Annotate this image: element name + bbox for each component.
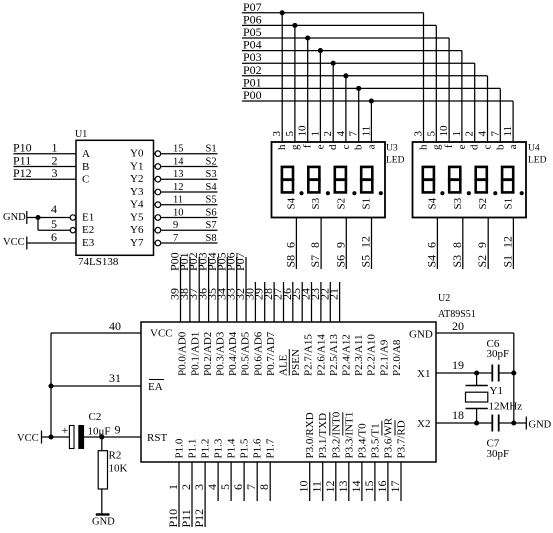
svg-text:Y1: Y1 [130, 161, 143, 173]
svg-text:S4: S4 [424, 255, 438, 268]
svg-text:9: 9 [115, 423, 121, 437]
wire U2 top pin 22 [329, 282, 331, 322]
svg-text:U3: U3 [386, 143, 398, 153]
svg-text:P0.5/AD5: P0.5/AD5 [240, 331, 252, 376]
ground symbol (R2) [96, 513, 110, 515]
svg-text:X1: X1 [417, 368, 430, 380]
wire P04 to U3 pin [319, 51, 321, 142]
wire U3 common S2 [345, 218, 347, 270]
svg-text:15: 15 [362, 481, 376, 493]
svg-text:8: 8 [257, 484, 271, 490]
U1 bubble Y4 [155, 202, 161, 208]
wire P03 to U3 pin [332, 63, 334, 142]
svg-text:E1: E1 [82, 212, 94, 224]
svg-text:1: 1 [166, 484, 180, 490]
svg-text:GND: GND [3, 212, 26, 223]
svg-text:P3.2/INT0: P3.2/INT0 [330, 411, 342, 458]
junction rail/EA [48, 383, 53, 388]
svg-text:1: 1 [451, 131, 463, 137]
svg-text:19: 19 [452, 358, 464, 372]
svg-text:S1: S1 [500, 255, 514, 268]
svg-text:E2: E2 [82, 224, 94, 236]
wire U4 common S3 [462, 218, 464, 270]
U3 digit 3 (8.) [335, 167, 346, 180]
svg-text:S1: S1 [361, 198, 373, 210]
svg-text:13: 13 [173, 169, 184, 180]
svg-text:P07: P07 [233, 252, 247, 271]
wire Y0 to S1 [154, 153, 156, 155]
svg-text:LED: LED [528, 155, 547, 165]
wire U2 top pin 21 [339, 282, 341, 322]
svg-text:12: 12 [323, 481, 337, 493]
wire U4 common S1 [512, 218, 514, 270]
svg-text:8: 8 [308, 242, 322, 248]
svg-text:7: 7 [489, 131, 501, 137]
svg-text:17: 17 [388, 481, 402, 493]
wire P04 to U2 [217, 257, 219, 322]
wire P05 to U2 [226, 257, 228, 322]
svg-text:f: f [443, 144, 455, 148]
svg-text:4: 4 [477, 131, 489, 137]
svg-text:4: 4 [335, 131, 347, 137]
junction X2/Y1 [474, 420, 479, 425]
svg-text:P0.0/AD0: P0.0/AD0 [177, 331, 189, 376]
junction X1/Y1 [474, 370, 479, 375]
wire P05 to U3 pin [307, 38, 309, 142]
svg-text:P2.0/A8: P2.0/A8 [391, 339, 403, 376]
wire P02 to U4 pin [487, 76, 489, 142]
svg-text:h: h [276, 144, 288, 150]
wire U2 top pin 27 [283, 282, 285, 322]
svg-text:30pF: 30pF [487, 348, 510, 360]
svg-text:c: c [482, 144, 494, 149]
svg-text:GND: GND [409, 329, 433, 341]
svg-text:P11: P11 [179, 509, 193, 527]
svg-text:d: d [469, 144, 481, 150]
svg-text:P12: P12 [13, 166, 32, 180]
wire P06 horizontal [242, 24, 436, 26]
svg-text:6: 6 [231, 484, 245, 490]
wire P00 to U2 [180, 257, 182, 322]
svg-text:VCC: VCC [150, 328, 173, 340]
svg-text:12MHz: 12MHz [489, 401, 523, 413]
U1 bubble E2 [70, 228, 75, 233]
svg-text:P0.6/AD6: P0.6/AD6 [252, 331, 264, 376]
svg-text:S3: S3 [310, 197, 322, 209]
svg-text:RST: RST [147, 432, 167, 444]
svg-text:S5: S5 [359, 255, 373, 268]
svg-text:LED: LED [386, 155, 405, 165]
svg-text:1: 1 [309, 131, 321, 137]
svg-text:10K: 10K [109, 463, 128, 475]
svg-text:EA: EA [148, 381, 163, 393]
wire U4 common S2 [487, 218, 489, 270]
junction rail/RST net [48, 434, 53, 439]
wire U2 bottom pin 3 [204, 462, 206, 527]
svg-text:3: 3 [413, 131, 425, 137]
svg-text:P1.4: P1.4 [226, 438, 238, 458]
U4 digit 2 (8.) [449, 167, 460, 180]
svg-text:10: 10 [173, 208, 184, 219]
svg-text:40: 40 [109, 319, 121, 333]
wire P07 to U2 [245, 257, 247, 322]
svg-text:GND: GND [529, 420, 552, 431]
wire P04 horizontal [242, 50, 462, 52]
U4 digit 4 (8.) [502, 167, 513, 180]
wire P01 horizontal [242, 87, 500, 89]
svg-text:5: 5 [218, 484, 232, 490]
svg-text:P1.0: P1.0 [174, 438, 186, 458]
svg-text:f: f [302, 144, 314, 148]
wire U2 bottom pin 10 [309, 462, 311, 501]
svg-text:30pF: 30pF [487, 448, 510, 460]
wire GND to E1 [27, 217, 71, 219]
LED display U4 [413, 142, 527, 218]
svg-text:11: 11 [310, 481, 324, 493]
wire P01 to U2 [189, 257, 191, 322]
svg-text:7: 7 [348, 131, 360, 137]
U1 bubble Y0 [155, 151, 161, 157]
svg-text:P12: P12 [192, 509, 206, 528]
junction RST/R2 [99, 434, 104, 439]
junction GND/E2 [35, 215, 40, 220]
svg-text:A: A [82, 148, 90, 160]
svg-text:P3.5/T1: P3.5/T1 [369, 423, 381, 458]
svg-text:ALE: ALE [278, 354, 290, 376]
svg-text:S1: S1 [502, 198, 514, 210]
svg-text:P2.2/A10: P2.2/A10 [366, 334, 378, 376]
wire R2 top [101, 437, 103, 451]
wire P10 to U1 [14, 153, 77, 155]
svg-text:4: 4 [51, 202, 57, 216]
wire U2 bottom pin 11 [322, 462, 324, 501]
wire Y4 to S5 [154, 204, 156, 206]
svg-text:d: d [327, 144, 339, 150]
svg-text:P3.1/TXD: P3.1/TXD [317, 413, 329, 459]
svg-text:Y1: Y1 [490, 385, 503, 397]
svg-text:9: 9 [173, 220, 178, 231]
power GND (right) [525, 417, 527, 430]
wire U2 bottom pin 14 [361, 462, 363, 501]
wire Y1 to S2 [154, 166, 156, 168]
svg-text:P3.3/INT1: P3.3/INT1 [343, 412, 355, 459]
wire P06 to U4 pin [435, 25, 437, 142]
wire U2 bottom pin 8 [269, 462, 271, 501]
wire P06 to U2 [236, 257, 238, 322]
svg-text:a: a [365, 144, 377, 149]
junction P01/U3 [356, 86, 361, 91]
svg-text:10: 10 [297, 125, 309, 137]
WR overline [381, 421, 383, 436]
wire U2 bottom pin 6 [243, 462, 245, 501]
wire P07 to U3 pin [281, 13, 283, 142]
INT1 overline [342, 412, 344, 435]
svg-text:S7: S7 [308, 255, 322, 268]
LED display U3 [272, 142, 386, 218]
decoder U1 74LS138 [76, 140, 154, 255]
wire X2 [436, 422, 492, 424]
wire VCC to E3 [27, 242, 76, 244]
wire P02 horizontal [242, 75, 488, 77]
junction P03/U3 [331, 61, 336, 66]
wire Y6 to S7 [154, 229, 156, 231]
svg-text:15: 15 [173, 144, 184, 155]
wire P00 to U4 pin [512, 101, 514, 142]
wire P05 to U4 pin [448, 38, 450, 142]
svg-text:Y5: Y5 [130, 212, 144, 224]
junction P04/U3 [318, 48, 323, 53]
wire U2 bottom pin 4 [217, 462, 219, 501]
wire P02 to U3 pin [345, 76, 347, 142]
svg-text:5: 5 [284, 131, 296, 137]
crystal Y1 [476, 373, 478, 386]
svg-text:U1: U1 [75, 129, 87, 140]
svg-text:31: 31 [109, 371, 121, 385]
svg-text:S4: S4 [285, 197, 297, 209]
svg-text:P3.7/RD: P3.7/RD [396, 420, 408, 458]
junction P06/U3 [292, 23, 297, 28]
svg-text:U4: U4 [528, 143, 540, 153]
junction X1/rail [511, 370, 516, 375]
svg-text:PSEN: PSEN [290, 349, 302, 376]
svg-text:P1.5: P1.5 [239, 438, 251, 458]
svg-text:P2.6/A14: P2.6/A14 [315, 334, 327, 376]
wire U2 top pin 23 [320, 282, 322, 322]
wire EA to rail [51, 385, 141, 387]
svg-text:5: 5 [425, 131, 437, 137]
U1 bubble Y5 [155, 215, 161, 221]
svg-text:c: c [340, 144, 352, 149]
svg-text:X2: X2 [417, 418, 430, 430]
svg-text:b: b [494, 144, 506, 150]
wire C2 to RST [84, 436, 141, 438]
wire U2 top pin 29 [264, 282, 266, 322]
svg-text:P2.1/A9: P2.1/A9 [378, 339, 390, 376]
svg-text:S2: S2 [335, 198, 347, 210]
svg-text:S8: S8 [206, 233, 217, 244]
wire Y3 to S4 [154, 191, 156, 193]
svg-text:6: 6 [283, 242, 297, 248]
svg-text:12: 12 [500, 236, 514, 248]
wire U2 pin 40 to VCC rail [51, 332, 141, 334]
svg-text:P00: P00 [243, 88, 262, 102]
svg-text:13: 13 [336, 481, 350, 493]
wire P06 to U3 pin [294, 25, 296, 142]
svg-text:S8: S8 [283, 255, 297, 268]
svg-text:g: g [289, 144, 301, 150]
svg-text:9: 9 [475, 242, 489, 248]
svg-text:S4: S4 [426, 197, 438, 209]
svg-text:P10: P10 [166, 509, 180, 528]
svg-text:P3.0/RXD: P3.0/RXD [304, 412, 316, 458]
U1 bubble Y1 [155, 164, 161, 170]
wire U2 top pin 24 [311, 282, 313, 322]
junction P05/U3 [305, 35, 310, 40]
wire U3 common S3 [320, 218, 322, 270]
svg-text:e: e [456, 144, 468, 149]
wire P01 to U4 pin [499, 88, 501, 142]
U3 digit 1 (8.) [282, 167, 293, 180]
junction P02/U3 [343, 73, 348, 78]
svg-text:h: h [418, 144, 430, 150]
U1 bubble E1 [70, 215, 75, 220]
svg-text:S5: S5 [206, 195, 217, 206]
wire P07 to U4 pin [423, 13, 425, 142]
wire U2 top pin 25 [301, 282, 303, 322]
INT0 overline [329, 412, 331, 435]
svg-text:P1.1: P1.1 [187, 439, 199, 459]
capacitor C7 [491, 415, 493, 432]
svg-text:2: 2 [322, 131, 334, 137]
svg-text:14: 14 [349, 481, 363, 493]
svg-text:11: 11 [360, 126, 372, 137]
svg-text:6: 6 [424, 242, 438, 248]
svg-text:S3: S3 [206, 169, 217, 180]
svg-text:P1.2: P1.2 [200, 439, 212, 459]
svg-text:g: g [430, 144, 442, 150]
svg-text:P3.4/T0: P3.4/T0 [356, 423, 368, 459]
junction P07/U3 [280, 10, 285, 15]
U1 bubble Y2 [155, 176, 161, 182]
wire U2 bottom pin 7 [256, 462, 258, 501]
svg-text:8: 8 [450, 242, 464, 248]
svg-text:Y2: Y2 [130, 173, 143, 185]
U1 bubble Y7 [155, 240, 161, 246]
wire Y2 to S3 [154, 178, 156, 180]
svg-text:S3: S3 [452, 197, 464, 209]
wire U2 top pin 26 [292, 282, 294, 322]
svg-text:VCC: VCC [17, 433, 39, 444]
wire U2 bottom pin 13 [348, 462, 350, 501]
wire U2 bottom pin 12 [335, 462, 337, 501]
svg-text:10μF: 10μF [88, 426, 111, 438]
svg-text:Y7: Y7 [130, 237, 144, 249]
svg-text:4: 4 [205, 484, 219, 490]
svg-text:P2.4/A12: P2.4/A12 [341, 334, 353, 376]
wire U2 bottom pin 1 [178, 462, 180, 527]
wire U2 pin 20 GND to right rail [436, 332, 514, 334]
svg-text:e: e [314, 144, 326, 149]
svg-text:7: 7 [173, 233, 178, 244]
wire U2 bottom pin 17 [400, 462, 402, 501]
capacitor C2 [69, 426, 74, 449]
svg-text:S4: S4 [206, 182, 218, 193]
wire P00 to U3 pin [370, 101, 372, 142]
junction P00/U3 [369, 98, 374, 103]
svg-text:9: 9 [333, 242, 347, 248]
svg-text:P0.2/AD2: P0.2/AD2 [202, 332, 214, 376]
wire U2 bottom pin 5 [230, 462, 232, 501]
wire P11 to U1 [14, 166, 77, 168]
wire Y5 to S6 [154, 217, 156, 219]
svg-text:Y3: Y3 [130, 186, 144, 198]
svg-text:GND: GND [92, 517, 115, 528]
wire P02 to U2 [198, 257, 200, 322]
wire U4 common S4 [436, 218, 438, 270]
wire right rail vertical [513, 333, 515, 423]
wire P12 to U1 [14, 178, 77, 180]
svg-text:a: a [507, 144, 519, 149]
U4 digit 1 (8.) [423, 167, 434, 180]
wire P03 to U4 pin [474, 63, 476, 142]
wire P04 to U4 pin [461, 51, 463, 142]
svg-text:P2.5/A13: P2.5/A13 [328, 334, 340, 376]
svg-text:S2: S2 [477, 198, 489, 210]
PSEN overline [288, 349, 290, 376]
resistor R2 [98, 451, 107, 489]
wire U2 bottom pin 15 [374, 462, 376, 501]
svg-text:S1: S1 [206, 144, 217, 155]
svg-text:74LS138: 74LS138 [78, 256, 119, 268]
svg-text:3: 3 [192, 484, 206, 490]
svg-text:B: B [82, 161, 89, 173]
U3 digit 2 (8.) [308, 167, 319, 180]
svg-text:S7: S7 [206, 220, 217, 231]
svg-text:S3: S3 [450, 255, 464, 268]
svg-text:20: 20 [452, 319, 464, 333]
svg-text:C2: C2 [89, 411, 102, 423]
svg-text:16: 16 [375, 481, 389, 493]
svg-text:21: 21 [327, 288, 341, 300]
wire P01 to U3 pin [358, 88, 360, 142]
svg-text:P0.7/AD7: P0.7/AD7 [265, 331, 277, 376]
capacitor C6 [491, 365, 493, 382]
svg-text:Y4: Y4 [130, 199, 144, 211]
U3 digit 4 (8.) [361, 167, 372, 180]
wire U2 bottom pin 16 [387, 462, 389, 501]
svg-text:3: 3 [52, 166, 58, 180]
svg-text:C: C [82, 174, 89, 186]
svg-text:P1.7: P1.7 [265, 438, 277, 458]
svg-text:7: 7 [244, 484, 258, 490]
wire U3 common S1 [371, 218, 373, 270]
wire P03 to U2 [208, 257, 210, 322]
svg-text:P0.1/AD1: P0.1/AD1 [189, 332, 201, 376]
svg-text:S6: S6 [333, 255, 347, 268]
U4 digit 3 (8.) [476, 167, 487, 180]
svg-text:14: 14 [173, 157, 184, 168]
svg-text:+: + [62, 423, 69, 437]
wire P05 horizontal [242, 37, 449, 39]
svg-text:Y0: Y0 [130, 148, 144, 160]
svg-text:P2.7/A15: P2.7/A15 [303, 334, 315, 376]
svg-text:2: 2 [464, 131, 476, 137]
svg-text:S2: S2 [475, 255, 489, 268]
wire U2 top pin 28 [273, 282, 275, 322]
svg-text:2: 2 [179, 484, 193, 490]
svg-text:U2: U2 [438, 293, 450, 304]
wire GND to E2 [37, 218, 39, 231]
svg-text:Y6: Y6 [130, 224, 144, 236]
svg-text:12: 12 [359, 236, 373, 248]
svg-text:11: 11 [502, 126, 514, 137]
svg-text:E3: E3 [82, 237, 95, 249]
svg-text:18: 18 [452, 408, 464, 422]
wire X1 [436, 372, 492, 374]
wire P07 horizontal [242, 12, 424, 14]
svg-text:P0.4/AD4: P0.4/AD4 [227, 331, 239, 376]
svg-text:P1.6: P1.6 [252, 438, 264, 458]
svg-text:11: 11 [173, 195, 183, 206]
svg-text:6: 6 [51, 230, 57, 244]
svg-text:P1.3: P1.3 [213, 438, 225, 458]
svg-text:S2: S2 [206, 157, 217, 168]
svg-text:b: b [353, 144, 365, 150]
svg-text:P2.3/A11: P2.3/A11 [353, 335, 365, 376]
wire VCC rail vertical [50, 333, 52, 437]
svg-text:VCC: VCC [3, 237, 25, 248]
wire P00 horizontal [242, 100, 513, 102]
